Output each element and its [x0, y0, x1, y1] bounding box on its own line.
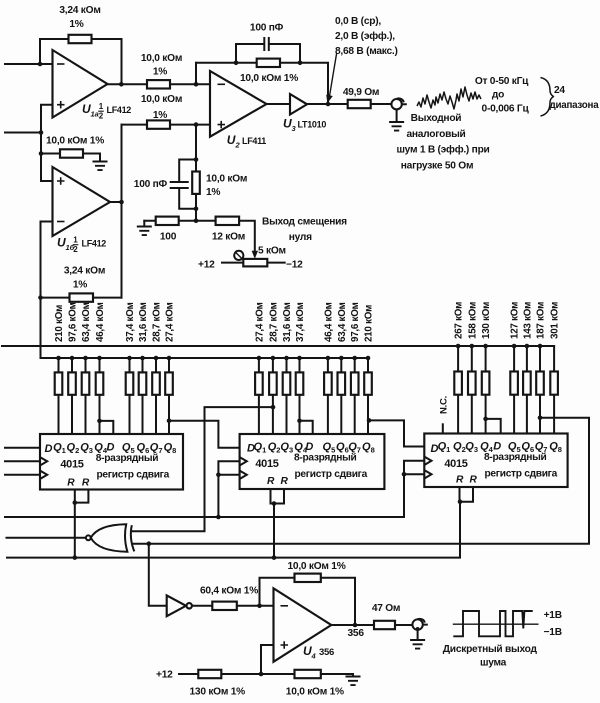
svg-text:130 кОм 1%: 130 кОм 1% — [190, 687, 246, 698]
svg-text:31,6 кОм: 31,6 кОм — [138, 302, 149, 342]
svg-text:1%: 1% — [206, 187, 220, 198]
svg-text:10,0 кОм 1%: 10,0 кОм 1% — [286, 687, 344, 698]
svg-text:3: 3 — [292, 124, 297, 133]
svg-text:46,4 кОм: 46,4 кОм — [323, 302, 334, 342]
svg-text:49,9 Ом: 49,9 Ом — [343, 87, 379, 98]
svg-text:R: R — [280, 476, 288, 487]
svg-text:шума: шума — [480, 658, 507, 669]
svg-text:2,0 В (эфф.),: 2,0 В (эфф.), — [335, 30, 395, 42]
svg-text:−12: −12 — [286, 260, 303, 271]
svg-text:27,4 кОм: 27,4 кОм — [165, 302, 176, 342]
svg-text:аналоговый: аналоговый — [406, 129, 465, 140]
svg-text:47 Ом: 47 Ом — [372, 603, 400, 614]
svg-text:1%: 1% — [73, 280, 87, 291]
svg-text:187 кОм: 187 кОм — [536, 302, 547, 339]
svg-text:267 кОм: 267 кОм — [454, 302, 465, 339]
svg-text:2: 2 — [235, 141, 241, 150]
svg-text:24: 24 — [554, 85, 565, 96]
svg-text:−1В: −1В — [544, 627, 562, 638]
svg-text:1: 1 — [73, 236, 78, 245]
svg-text:100: 100 — [160, 232, 177, 243]
svg-text:LT1010: LT1010 — [298, 120, 327, 130]
svg-text:356: 356 — [348, 628, 365, 639]
svg-text:D: D — [45, 443, 53, 455]
svg-text:D: D — [107, 442, 115, 454]
svg-text:1%: 1% — [69, 19, 83, 30]
svg-text:63,4 кОм: 63,4 кОм — [337, 302, 348, 342]
svg-text:10,0 кОм: 10,0 кОм — [206, 174, 247, 185]
svg-text:12 кОм: 12 кОм — [212, 232, 245, 243]
svg-text:4015: 4015 — [444, 458, 467, 470]
svg-text:1: 1 — [99, 102, 104, 111]
svg-text:шум 1 В (эфф.) при: шум 1 В (эфф.) при — [396, 144, 489, 156]
svg-text:1a: 1a — [91, 110, 99, 119]
svg-text:37,4 кОм: 37,4 кОм — [295, 302, 306, 342]
svg-text:2: 2 — [73, 245, 78, 254]
svg-text:D: D — [493, 441, 501, 453]
svg-text:27,4 кОм: 27,4 кОм — [254, 302, 265, 342]
svg-text:46,4 кОм: 46,4 кОм — [95, 302, 106, 342]
svg-text:97,6 кОм: 97,6 кОм — [68, 302, 79, 342]
svg-text:LF411: LF411 — [242, 136, 266, 146]
svg-text:100 пФ: 100 пФ — [250, 23, 284, 34]
svg-text:3,24 кОм: 3,24 кОм — [64, 266, 105, 277]
svg-text:LF412: LF412 — [107, 105, 132, 115]
svg-text:210 кОм: 210 кОм — [364, 305, 375, 342]
svg-text:LF412: LF412 — [82, 239, 107, 249]
svg-text:R: R — [67, 478, 75, 489]
svg-text:97,6 кОм: 97,6 кОм — [350, 302, 361, 342]
svg-text:+12: +12 — [198, 260, 215, 271]
svg-text:Выход смещения: Выход смещения — [262, 217, 347, 228]
svg-text:регистр сдвига: регистр сдвига — [485, 469, 558, 480]
svg-text:+1В: +1В — [544, 610, 562, 621]
svg-text:10,0 кОм 1%: 10,0 кОм 1% — [240, 73, 298, 84]
svg-text:От 0-50 кГц: От 0-50 кГц — [475, 76, 529, 87]
svg-text:3,24 кОм: 3,24 кОм — [59, 5, 100, 16]
svg-text:регистр сдвига: регистр сдвига — [97, 470, 170, 481]
svg-text:10,0 кОм: 10,0 кОм — [141, 53, 182, 64]
svg-text:28,7 кОм: 28,7 кОм — [268, 302, 279, 342]
svg-text:8-разрядный: 8-разрядный — [484, 452, 546, 463]
svg-text:130 кОм: 130 кОм — [481, 302, 492, 339]
svg-text:4: 4 — [311, 652, 317, 661]
svg-text:60,4 кОм 1%: 60,4 кОм 1% — [200, 586, 258, 597]
svg-text:до: до — [492, 90, 504, 101]
svg-text:210 кОм: 210 кОм — [54, 305, 65, 342]
svg-text:301 кОм: 301 кОм — [550, 302, 561, 339]
svg-text:5 кОм: 5 кОм — [258, 246, 286, 257]
svg-text:31,6 кОм: 31,6 кОм — [282, 302, 293, 342]
svg-text:1%: 1% — [153, 110, 167, 121]
svg-text:R: R — [82, 478, 90, 489]
svg-text:нагрузке 50 Ом: нагрузке 50 Ом — [401, 161, 473, 172]
svg-text:Дискретный выход: Дискретный выход — [443, 644, 538, 655]
svg-text:28,7 кОм: 28,7 кОм — [152, 302, 163, 342]
svg-text:N.C.: N.C. — [439, 396, 450, 414]
svg-text:0-0,006 Гц: 0-0,006 Гц — [482, 104, 530, 115]
svg-text:63,4 кОм: 63,4 кОм — [81, 302, 92, 342]
svg-text:10,0 кОм 1%: 10,0 кОм 1% — [288, 561, 346, 572]
svg-text:+12: +12 — [156, 670, 173, 681]
svg-text:8,68 В (макс.): 8,68 В (макс.) — [335, 46, 398, 57]
svg-text:0,0 В (ср),: 0,0 В (ср), — [335, 16, 381, 27]
svg-text:143 кОм: 143 кОм — [522, 302, 533, 339]
svg-text:U: U — [227, 133, 236, 147]
svg-text:127 кОм: 127 кОм — [510, 302, 521, 339]
svg-text:R: R — [267, 476, 275, 487]
svg-text:4015: 4015 — [60, 459, 83, 471]
svg-text:158 кОм: 158 кОм — [467, 302, 478, 339]
svg-text:37,4 кОм: 37,4 кОм — [125, 302, 136, 342]
svg-text:R: R — [469, 475, 477, 486]
svg-text:нуля: нуля — [289, 232, 312, 243]
svg-text:10,0 кОм: 10,0 кОм — [141, 94, 182, 105]
svg-text:Выходной: Выходной — [411, 113, 462, 124]
svg-text:2: 2 — [99, 112, 104, 121]
svg-text:10,0 кОм 1%: 10,0 кОм 1% — [46, 136, 104, 147]
svg-text:регистр сдвига: регистр сдвига — [295, 469, 368, 480]
svg-text:диапазона: диапазона — [550, 100, 600, 111]
svg-text:100 пФ: 100 пФ — [134, 179, 168, 190]
svg-text:356: 356 — [319, 647, 334, 658]
svg-text:4015: 4015 — [255, 458, 278, 470]
svg-text:R: R — [456, 475, 464, 486]
svg-text:1%: 1% — [153, 67, 167, 78]
